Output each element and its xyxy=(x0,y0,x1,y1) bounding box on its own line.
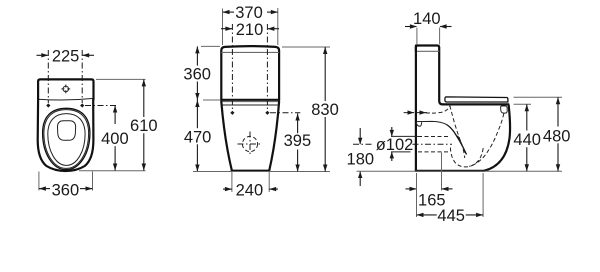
inner bowl section curve 2 xyxy=(458,136,465,153)
floor extension line (side) xyxy=(357,170,563,172)
svg-text:180: 180 xyxy=(347,151,375,169)
centerline to 395 dim xyxy=(270,112,300,114)
bowl rim line xyxy=(443,103,509,105)
dimension 165 xyxy=(406,187,453,210)
lid button symbol xyxy=(61,85,70,94)
fixing hole diamond left xyxy=(46,103,50,107)
rear deck line xyxy=(416,121,447,124)
dimension 360 (front) xyxy=(183,46,211,100)
svg-text:830: 830 xyxy=(311,101,339,119)
pedestal base line xyxy=(232,170,269,172)
hinge hole arc xyxy=(416,122,422,127)
drain symbol xyxy=(238,132,263,157)
floor extension line (front) xyxy=(193,171,330,173)
pan back wall xyxy=(415,46,417,171)
dimension 470 xyxy=(184,100,212,172)
dimension 480 xyxy=(543,97,571,171)
dimension 440 xyxy=(513,104,541,171)
fixing hole diamond right xyxy=(80,103,84,107)
svg-text:395: 395 xyxy=(284,132,312,150)
dimension 445 xyxy=(417,207,484,225)
tank outline (front) xyxy=(221,46,279,102)
dimension 400 xyxy=(101,106,129,171)
extension rim top to 440 xyxy=(514,103,532,105)
seat bumper xyxy=(501,106,508,113)
svg-text:140: 140 xyxy=(413,10,441,28)
dimension 370 xyxy=(223,4,278,22)
pedestal outline xyxy=(221,102,279,171)
extension tank bottom left xyxy=(203,99,220,101)
svg-text:440: 440 xyxy=(513,131,541,149)
svg-text:445: 445 xyxy=(437,207,465,225)
extension tank top left xyxy=(201,45,220,47)
outlet centerline xyxy=(353,143,373,145)
seat lid xyxy=(445,97,508,102)
extension 445 right xyxy=(482,173,484,217)
water spot xyxy=(58,121,76,141)
dia 102 extension line top xyxy=(391,135,418,137)
dimension 395 xyxy=(284,114,312,172)
extension 165 center xyxy=(441,153,443,191)
extension line bowl bottom to 610 xyxy=(79,170,146,172)
fixing diamond left (front) xyxy=(230,111,234,115)
extension lines 360 xyxy=(38,172,40,191)
dimension 240 xyxy=(223,181,278,199)
pan front profile xyxy=(484,106,510,171)
svg-text:360: 360 xyxy=(52,182,80,200)
pan outer contour (plan) xyxy=(38,100,94,172)
svg-text:370: 370 xyxy=(235,4,263,22)
svg-text:210: 210 xyxy=(236,21,264,39)
pan base xyxy=(416,170,484,172)
dimension 140 xyxy=(405,10,452,29)
svg-text:ø102: ø102 xyxy=(376,136,414,154)
extension 445 left xyxy=(416,173,418,217)
dimension 610 xyxy=(130,79,158,170)
bowl top line xyxy=(223,104,278,106)
svg-text:610: 610 xyxy=(130,117,158,135)
svg-text:480: 480 xyxy=(543,127,571,145)
extension lines 370 xyxy=(222,9,224,46)
extension lid top to 480 xyxy=(514,96,563,98)
inner bowl section curve xyxy=(447,125,467,155)
outlet pipe dashed bottom xyxy=(418,151,450,153)
svg-text:360: 360 xyxy=(183,66,211,84)
seat outer ring inner line xyxy=(44,110,89,169)
inner bowl dashed contour xyxy=(469,114,504,167)
svg-text:240: 240 xyxy=(236,181,264,199)
centerline to 400 dim xyxy=(85,105,116,107)
centerline 210 right xyxy=(266,24,268,110)
svg-text:470: 470 xyxy=(184,128,212,146)
extension line tank top to 610 xyxy=(96,78,146,80)
tank outline (side) xyxy=(416,46,443,105)
centerline 225 left xyxy=(47,50,49,103)
dimension 830 xyxy=(311,47,339,172)
seat opening ring xyxy=(48,114,85,166)
outlet pipe dashed top xyxy=(418,136,450,138)
dimension 360 xyxy=(39,182,93,200)
dimension dia 102 xyxy=(376,127,414,161)
flush channel dashed xyxy=(426,106,450,113)
seat outer ring xyxy=(43,108,90,169)
centerline 210 left xyxy=(231,24,233,110)
svg-text:225: 225 xyxy=(52,48,80,66)
svg-text:400: 400 xyxy=(101,130,129,148)
dimension 225 xyxy=(37,48,95,66)
extension lines 140 xyxy=(416,28,418,45)
dimension 210 xyxy=(221,21,279,39)
inlet flow arrow xyxy=(404,110,430,114)
extension lines 240 xyxy=(231,172,233,192)
dimension 180 xyxy=(347,128,375,186)
centerline 225 right xyxy=(81,50,83,103)
tank outline (plan) xyxy=(38,79,93,100)
bowl back slope dashed xyxy=(450,106,465,158)
fixing diamond right (front) xyxy=(265,111,269,115)
dia 102 extension line bottom xyxy=(391,151,411,153)
trap dashed xyxy=(450,147,483,167)
extension tank top right xyxy=(282,46,330,48)
